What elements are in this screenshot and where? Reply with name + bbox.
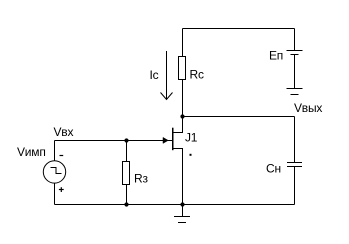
wire R3 top lead — [126, 141, 128, 162]
wire battery top lead — [294, 29, 296, 51]
ground — [174, 205, 190, 223]
gate arrowhead of J1 — [163, 137, 168, 143]
node ground junction dot — [180, 202, 184, 206]
svg-text:J1: J1 — [185, 130, 198, 144]
transistor J1 channel bar — [172, 128, 174, 151]
resistor Rз — [123, 162, 130, 185]
node R3 top junction dot — [124, 138, 128, 142]
svg-text:Eп: Eп — [269, 48, 283, 62]
node drain junction dot — [180, 114, 184, 118]
wire R3 bottom lead — [126, 185, 128, 205]
svg-text:Rз: Rз — [134, 171, 148, 185]
svg-text:Rc: Rc — [190, 68, 204, 82]
resistor Rc — [179, 57, 186, 80]
wire source bottom to ground rail — [54, 183, 56, 204]
svg-text:Vвых: Vвых — [294, 101, 322, 115]
transistor J1 (JFET) drain lead — [173, 117, 183, 133]
wire Rc bottom to drain node — [182, 80, 184, 117]
source marker dot of J1 — [190, 154, 192, 156]
svg-text:Vвх: Vвх — [54, 125, 74, 139]
current arrow Ic — [161, 51, 173, 100]
wire output corner down to capacitor — [294, 117, 296, 163]
battery Eп — [287, 51, 303, 95]
minus sign — [60, 155, 64, 157]
wire top horizontal (Rc branch to battery) — [183, 28, 295, 30]
wire drain node to output corner — [183, 116, 295, 118]
svg-text:Cн: Cн — [266, 162, 281, 176]
wire Vвх corner down to source — [54, 141, 56, 161]
wire bottom rail — [55, 204, 295, 206]
plus sign — [59, 187, 64, 192]
transistor J1 source lead — [173, 149, 183, 205]
source Vимп circle — [43, 161, 65, 183]
wire Rc branch top vertical — [182, 29, 184, 57]
node R3 bottom junction dot — [124, 202, 128, 206]
step waveform inside source — [51, 168, 62, 174]
svg-text:Vимп: Vимп — [17, 145, 46, 159]
wire gate line (Vвх node to J1 gate) — [55, 140, 173, 142]
capacitor Cн — [287, 163, 302, 167]
svg-text:Ic: Ic — [150, 68, 159, 82]
wire capacitor bottom to rail — [294, 167, 296, 205]
